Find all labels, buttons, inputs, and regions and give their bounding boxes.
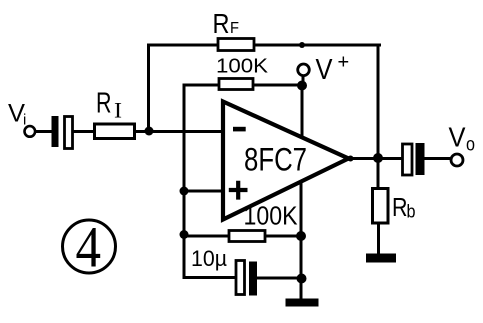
svg-text:F: F — [230, 20, 239, 37]
wire V+ terminal stem — [302, 76, 305, 86]
svg-text:V: V — [316, 54, 334, 86]
svg-text:R: R — [213, 8, 230, 39]
wire lower 100K resistor run — [184, 235, 301, 238]
wire 10u capacitor to ground vertical — [257, 277, 302, 280]
node blob on top wire — [299, 42, 305, 48]
op-amp non-inverting input plus symbol — [229, 181, 248, 200]
wire output node down to Rb — [377, 158, 380, 189]
svg-text:i: i — [23, 112, 26, 129]
wire input capacitor to RI — [72, 130, 96, 133]
wire op-amp output to coupling capacitor — [349, 157, 403, 160]
op-amp inverting input minus symbol — [233, 127, 246, 132]
node 10u capacitor ground junction — [297, 274, 307, 284]
resistor RI body — [95, 124, 135, 139]
capacitor C1 input coupling solid plate — [52, 116, 59, 147]
svg-text:I: I — [114, 98, 122, 123]
wire top feedback run — [149, 44, 380, 47]
wire right vertical feedback to output node — [377, 45, 380, 158]
node V+ junction — [297, 81, 307, 91]
node input junction at RI and feedback — [145, 127, 154, 136]
svg-text:8FC7: 8FC7 — [244, 142, 307, 178]
ground under Rb — [366, 254, 396, 263]
op-amp U1 triangle — [223, 102, 349, 220]
wire V+ supply pin into op-amp top edge — [301, 86, 304, 136]
terminal V+ — [298, 64, 310, 76]
resistor 100K upper body — [219, 79, 253, 90]
capacitor C2 output coupling solid plate — [416, 143, 425, 175]
wire Vi terminal to input capacitor — [36, 130, 51, 133]
terminal Vo — [451, 154, 463, 166]
capacitor C1 input coupling hollow plate — [65, 117, 73, 149]
svg-text:R: R — [392, 192, 408, 222]
capacitor C2 output coupling hollow plate — [403, 144, 413, 175]
svg-text:o: o — [466, 135, 475, 156]
capacitor C3 10u bypass hollow plate — [236, 261, 245, 295]
capacitor C3 10u bypass solid plate — [249, 262, 257, 296]
wire output capacitor to Vo terminal — [424, 157, 452, 160]
svg-text:b: b — [407, 202, 416, 222]
resistor RF body — [218, 39, 254, 51]
wire node A bottom corner to 10u capacitor — [184, 276, 237, 279]
ground under 10u capacitor — [286, 299, 319, 307]
node non-inverting input junction — [180, 187, 189, 196]
terminal Vi — [25, 126, 36, 137]
svg-text:4: 4 — [76, 215, 102, 280]
resistor 100K lower body — [229, 231, 265, 242]
resistor Rb body — [373, 189, 389, 224]
svg-text:+: + — [338, 52, 350, 74]
wire RI to inverting input of op-amp — [134, 130, 223, 133]
wire V- supply pin from op-amp bottom edge to ground — [300, 183, 303, 299]
figure number circle — [63, 220, 116, 273]
node at op-amp output apex — [348, 156, 354, 162]
node output junction — [373, 153, 383, 163]
wire non-inverting input to op-amp — [184, 190, 224, 193]
svg-text:V: V — [449, 122, 466, 153]
wire node A vertical (bias divider midpoint) — [183, 85, 186, 278]
svg-text:100K: 100K — [216, 56, 269, 78]
node A lower 100K junction — [180, 230, 189, 239]
svg-text:100K: 100K — [244, 201, 299, 231]
wire left vertical from top run to input node — [147, 45, 150, 131]
wire node A to upper 100K resistor and V+ junction — [184, 84, 302, 87]
svg-text:R: R — [96, 88, 112, 120]
wire Rb to ground — [377, 223, 380, 255]
node lower 100K right junction — [296, 231, 306, 241]
svg-text:10µ: 10µ — [191, 246, 227, 271]
